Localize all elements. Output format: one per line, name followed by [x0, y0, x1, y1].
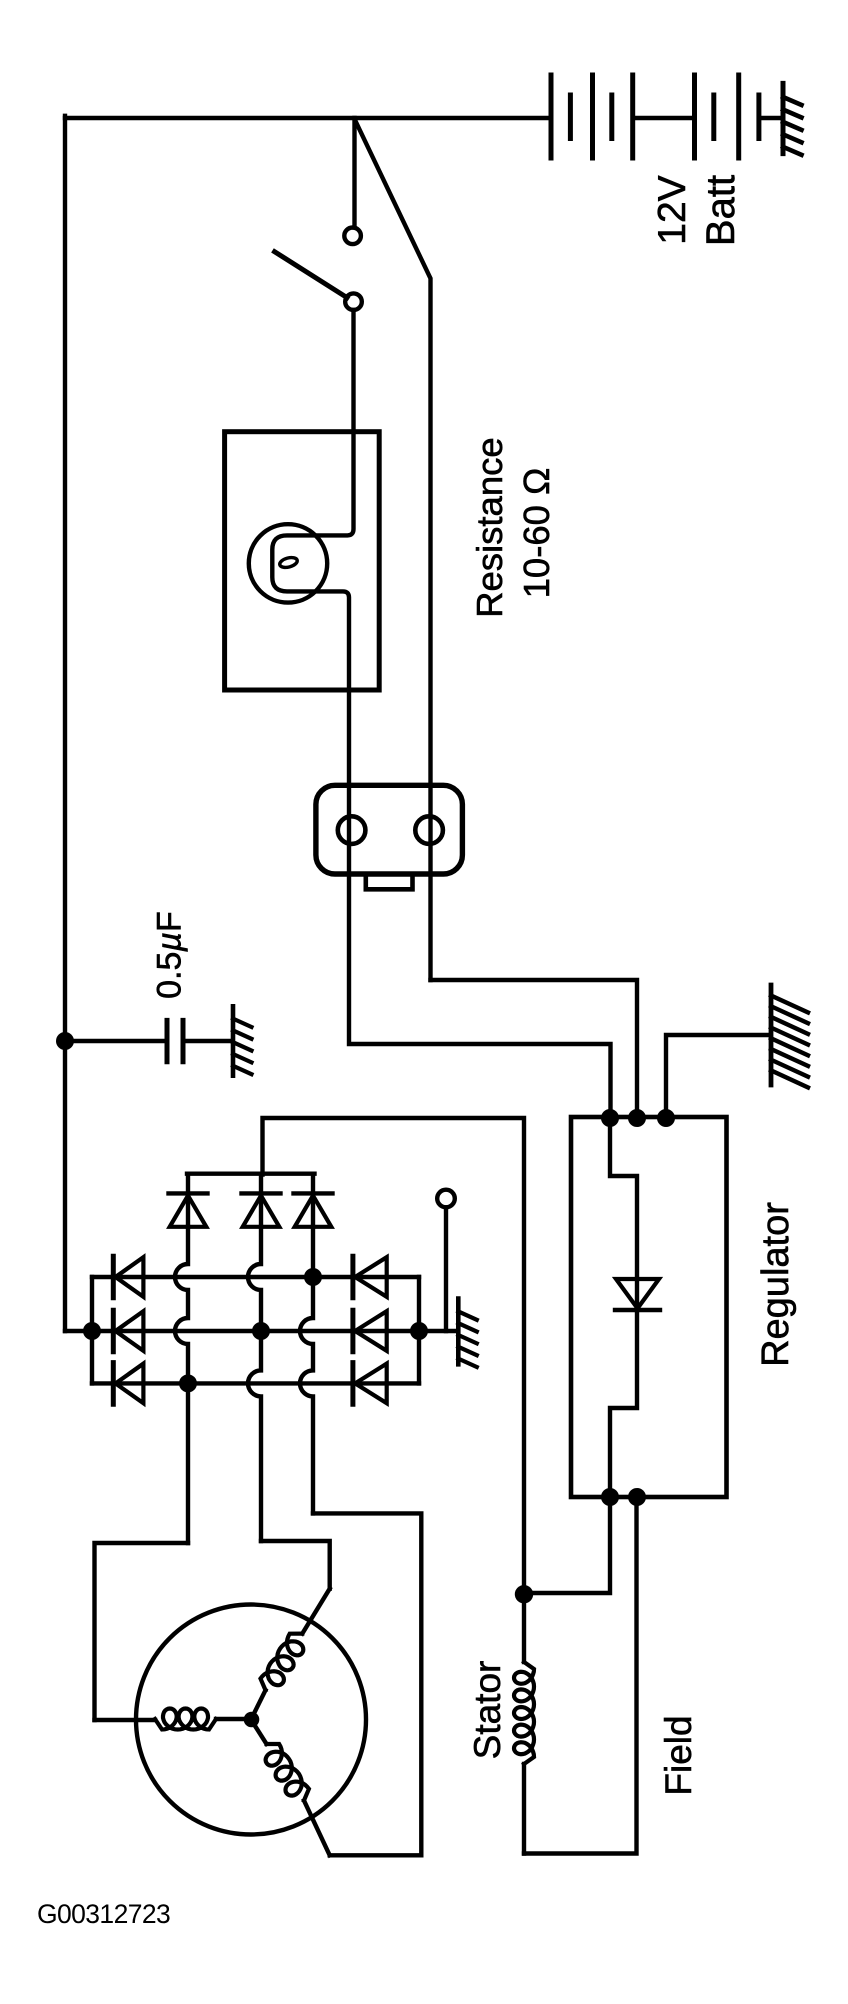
alternator stator circle	[136, 1605, 366, 1835]
wire: regulator diode to bottom terminal	[610, 1310, 637, 1497]
wire: regulator internal zigzag and diode feed	[610, 1118, 637, 1310]
wire: capacitor to ground	[183, 1039, 231, 1043]
wire: phase 1 run	[95, 1543, 189, 1720]
diode (rectifier pos row 3)	[353, 1363, 387, 1405]
battery 12V Batt	[551, 75, 783, 158]
stator winding 2 (upper right)	[251, 1589, 330, 1720]
capacitor 0.5uF	[167, 1020, 183, 1061]
ground (rectifier row 2)	[458, 1299, 477, 1367]
svg-text:Resistance: Resistance	[469, 437, 510, 618]
wire: left diode column connector	[90, 1277, 94, 1383]
connector pin 1	[338, 816, 366, 844]
field coil	[514, 1594, 534, 1853]
node: phase3/row1	[304, 1268, 322, 1286]
diode D2 (diode trio, up)	[242, 1174, 281, 1227]
diode (regulator, down)	[615, 1279, 660, 1310]
lamp box (charge indicator)	[225, 432, 380, 690]
stator winding 3 (lower right)	[251, 1720, 330, 1856]
node: stator tap junction	[515, 1585, 533, 1603]
stator winding 1 (left)	[95, 1709, 252, 1730]
node: regulator top terminal 2	[628, 1109, 646, 1127]
wire: rail to capacitor	[65, 1039, 167, 1043]
svg-text:Field: Field	[658, 1715, 699, 1795]
svg-text:Batt: Batt	[699, 175, 743, 246]
connector pin 2	[415, 816, 443, 844]
diode (rectifier neg row 1)	[113, 1256, 143, 1298]
node: rail/row2	[83, 1322, 101, 1340]
label: 12V Batt	[651, 175, 743, 246]
lamp bulb	[249, 524, 327, 602]
switch (ignition) lower contact	[345, 293, 362, 310]
wire: diode trio top bar	[187, 1171, 315, 1175]
wire: battery positive feed (top)	[65, 116, 551, 120]
node: regulator bottom terminal 1	[601, 1488, 619, 1506]
diode (rectifier neg row 3)	[113, 1363, 143, 1405]
node: capacitor junction on left rail	[56, 1032, 74, 1050]
wire: right diode column connector	[417, 1277, 421, 1383]
wire: left rail (B+ to rectifier output row)	[63, 116, 67, 1331]
terminal (test tap, open circle)	[437, 1190, 455, 1208]
regulator box	[571, 1117, 727, 1497]
node: phase1/row3	[179, 1374, 197, 1392]
lamp filament	[279, 556, 299, 569]
node: phase2/row2	[252, 1322, 270, 1340]
svg-text:10-60 Ω: 10-60 Ω	[516, 468, 557, 599]
switch (ignition) upper contact	[344, 228, 361, 245]
svg-text:Regulator: Regulator	[755, 1202, 797, 1367]
diode D1 (diode trio, up)	[169, 1174, 208, 1227]
switch (ignition) blade	[275, 252, 347, 298]
diode (rectifier pos row 1)	[353, 1256, 387, 1298]
wire: switch feed from top	[352, 118, 356, 228]
diode (rectifier neg row 2)	[113, 1310, 143, 1352]
svg-text:Stator: Stator	[467, 1661, 508, 1760]
ground (capacitor)	[233, 1006, 252, 1075]
node: regulator top terminal 3	[657, 1109, 675, 1127]
node: regulator top terminal 1	[601, 1109, 619, 1127]
wire: regulator bottom 2 down (field return)	[524, 1497, 637, 1854]
wire: rectifier row 3	[92, 1381, 419, 1385]
svg-text:12V: 12V	[651, 175, 694, 244]
wire: rectifier plus-diodes to stator tap	[263, 1118, 525, 1595]
wire: phase 3 column	[300, 1227, 313, 1514]
node: row2/right column	[410, 1322, 428, 1340]
connector tab	[366, 874, 413, 889]
diode (rectifier pos row 2)	[353, 1310, 387, 1352]
wire: rectifier row 1	[92, 1275, 419, 1279]
wire: phase 1 column	[175, 1227, 188, 1543]
svg-text:G00312723: G00312723	[37, 1899, 170, 1929]
label: Resistance 10-60 ohm	[469, 437, 557, 618]
wire: terminal stem	[444, 1207, 448, 1331]
wire: regulator terminal 3 to ground	[666, 1035, 769, 1118]
ground (regulator)	[771, 985, 808, 1087]
wire: regulator bottom 1 to stator tap	[525, 1497, 611, 1593]
node: regulator bottom terminal 2	[628, 1488, 646, 1506]
ground (battery)	[783, 83, 802, 154]
connector (2-pin plug)	[316, 785, 463, 874]
wire: through lamp to regulator	[272, 310, 610, 1118]
svg-text:0.5µF: 0.5µF	[151, 911, 189, 999]
diode D3 (diode trio, up)	[294, 1174, 333, 1227]
wire: resistance branch to regulator	[431, 980, 638, 1118]
wire: phase 2 run	[261, 1541, 330, 1589]
wire: rectifier row 2 (output to rail and ground)	[65, 1329, 456, 1333]
wire: phase 2 column	[248, 1227, 261, 1541]
wire: diagonal to resistance branch	[355, 119, 431, 980]
wire: phase 3 run	[313, 1513, 421, 1855]
node: stator star point	[244, 1712, 260, 1728]
